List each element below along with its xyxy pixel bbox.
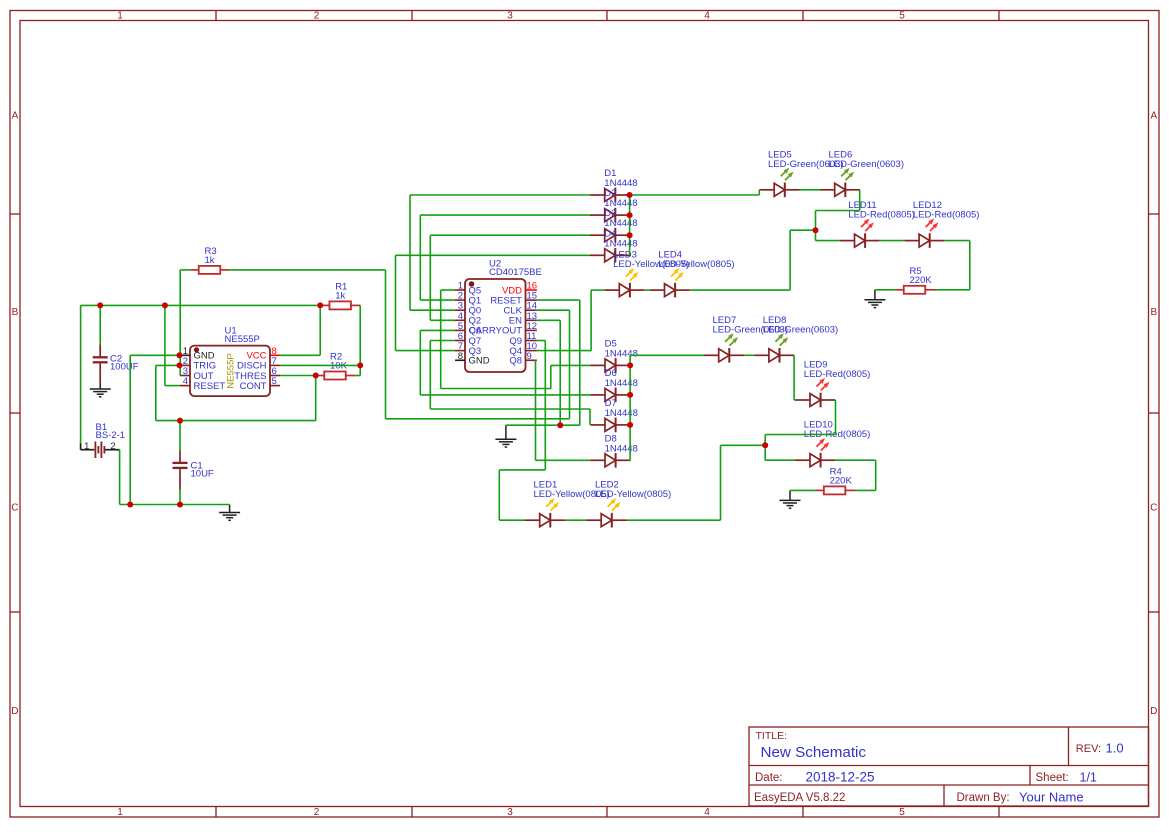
label C2 name bbox=[110, 354, 122, 365]
label D3 name bbox=[604, 208, 616, 219]
wire U2reset vertical bbox=[579, 300, 581, 425]
svg-text:C: C bbox=[1150, 503, 1157, 514]
svg-text:BS-2-1: BS-2-1 bbox=[96, 430, 126, 441]
wire D2 anode horizontal bbox=[420, 214, 590, 216]
resistor R3 bbox=[199, 266, 221, 274]
label C1 name bbox=[191, 461, 203, 472]
svg-text:1: 1 bbox=[117, 10, 123, 21]
wire LED11-LED12 link bbox=[880, 240, 905, 242]
label R1 value bbox=[335, 290, 345, 301]
junction D2 cathode bbox=[627, 212, 633, 218]
wire RESET horizontal bbox=[165, 385, 180, 387]
wire LED7-LED8 link bbox=[744, 354, 754, 356]
wire LED2 up vertical bbox=[720, 445, 722, 520]
wire LED5-LED6 link bbox=[800, 189, 821, 191]
svg-text:10UF: 10UF bbox=[191, 469, 214, 480]
LED LED11 bbox=[840, 219, 880, 248]
junction U1 pin1 bbox=[177, 352, 183, 358]
svg-text:1N4448: 1N4448 bbox=[605, 408, 638, 419]
wire Q5-D5 horizontal bbox=[441, 388, 551, 390]
battery B1 BS-2-1 bbox=[81, 442, 120, 459]
svg-text:4: 4 bbox=[704, 10, 710, 21]
svg-text:5: 5 bbox=[272, 376, 277, 387]
wire D bus vertical top bbox=[629, 195, 631, 255]
wire Q6 vertical bbox=[419, 330, 421, 395]
R2 leads bbox=[316, 375, 356, 377]
label D1 name bbox=[604, 168, 616, 179]
svg-text:LED-Yellow(0805): LED-Yellow(0805) bbox=[595, 489, 671, 500]
label D3 value bbox=[604, 218, 637, 229]
svg-text:1: 1 bbox=[117, 807, 123, 818]
ground GND-R4 bbox=[780, 490, 801, 508]
svg-text:9: 9 bbox=[527, 351, 532, 362]
junction D5 cathode bbox=[627, 362, 633, 368]
wire D5 link vertical bbox=[550, 365, 552, 388]
R3 leads bbox=[191, 269, 230, 271]
wire LED12 down vertical bbox=[969, 241, 971, 290]
svg-text:D: D bbox=[11, 706, 18, 717]
LED LED6 bbox=[820, 168, 860, 197]
label R2 name bbox=[330, 352, 342, 363]
resistor R2 bbox=[324, 372, 346, 380]
wire Q3-D4 vertical bbox=[395, 255, 397, 350]
label LED11 value bbox=[848, 210, 915, 221]
wire R5 right horizontal bbox=[936, 289, 970, 291]
wire Q0-D1 vertical bbox=[409, 195, 411, 310]
label R4 name bbox=[830, 467, 842, 478]
wire GND-555 vertical bbox=[129, 355, 131, 504]
svg-text:220K: 220K bbox=[910, 275, 933, 286]
svg-text:B: B bbox=[1150, 307, 1157, 318]
svg-text:1N4448: 1N4448 bbox=[604, 238, 637, 249]
label C2 value bbox=[110, 362, 139, 373]
wire C1 top stub bbox=[179, 421, 181, 451]
svg-text:Sheet:: Sheet: bbox=[1036, 772, 1069, 784]
wire LED4 cathode horizontal bbox=[690, 289, 790, 291]
wire D3 anode horizontal bbox=[430, 234, 590, 236]
label LED3 value bbox=[613, 259, 689, 270]
label LED4 value bbox=[658, 259, 734, 270]
wire R3-CLK vertical bbox=[385, 270, 387, 419]
U2 pin 7 stub bbox=[455, 350, 465, 352]
wire D6 anode horizontal bbox=[420, 394, 590, 396]
capacitor C1 bbox=[173, 463, 188, 468]
LED LED9 bbox=[795, 378, 835, 407]
svg-text:1k: 1k bbox=[205, 255, 215, 266]
wire LED12 cathode horizontal bbox=[944, 240, 969, 242]
diode D2 bbox=[590, 208, 630, 223]
svg-text:GND: GND bbox=[469, 356, 490, 367]
wire Q9 pin horizontal bbox=[537, 340, 545, 342]
diode D6 bbox=[590, 388, 630, 403]
wire Q4 vertical bbox=[590, 290, 592, 351]
junction rail-C2 bbox=[97, 302, 103, 308]
wire LED9 cathode horizontal bbox=[834, 399, 836, 401]
wire C1 bottom lead bbox=[179, 489, 181, 505]
wire D8 anode horizontal bbox=[536, 459, 591, 461]
U1 pin 1 stub bbox=[180, 354, 190, 356]
wire Q4 pin horizontal bbox=[537, 350, 591, 352]
wire R2 right link bbox=[355, 375, 360, 377]
U2 pin 11 stub bbox=[526, 340, 537, 342]
wire LED6 down vertical bbox=[859, 190, 861, 211]
label U1 value bbox=[225, 334, 260, 345]
C2 leads bbox=[99, 344, 101, 383]
wire LED10 cathode horizontal bbox=[835, 459, 875, 461]
wire LED10 net vertical bbox=[764, 435, 766, 461]
resistor R5 bbox=[904, 286, 926, 294]
label D7 value bbox=[605, 408, 638, 419]
U2 pin 3 stub bbox=[455, 309, 465, 311]
label D8 value bbox=[605, 443, 638, 454]
wire LED8 cathode vertical bbox=[793, 355, 795, 400]
svg-text:1/1: 1/1 bbox=[1080, 771, 1097, 785]
label LED5 name bbox=[768, 149, 792, 160]
title block bbox=[749, 727, 1149, 806]
U2 pin 15 stub bbox=[526, 299, 537, 301]
wire Q7 horizontal bbox=[430, 340, 455, 342]
label R3 name bbox=[205, 246, 217, 257]
wire U2reset pin horizontal bbox=[537, 299, 580, 301]
U1 pin numbers left bbox=[183, 346, 188, 387]
label LED11 name bbox=[848, 200, 876, 211]
wire Q1-D2 vertical bbox=[419, 215, 421, 300]
svg-text:2: 2 bbox=[314, 10, 320, 21]
wire LED1 anode horizontal bbox=[499, 519, 525, 521]
wire LED10 anode horizontal bbox=[765, 459, 795, 461]
wire LED34 top horizontal bbox=[790, 229, 815, 231]
LED LED2 bbox=[587, 498, 627, 527]
label B1 value bbox=[96, 430, 126, 441]
junction U1 pin2 bbox=[177, 362, 183, 368]
wire Q6 horizontal bbox=[420, 329, 455, 331]
diode D5 bbox=[590, 358, 630, 373]
wire THRES-C1 vertical bbox=[315, 376, 317, 421]
wire TRIG-C1 vertical bbox=[155, 365, 157, 420]
label LED4 name bbox=[658, 250, 682, 261]
wire LED6 cathode corner bbox=[859, 189, 861, 191]
label R5 name bbox=[910, 266, 922, 277]
U1 pin 2 stub bbox=[180, 364, 190, 366]
label R3 value bbox=[205, 255, 215, 266]
label C1 value bbox=[191, 469, 214, 480]
wire D4 anode horizontal bbox=[396, 254, 591, 256]
LED LED7 bbox=[704, 333, 744, 362]
IC U2 CD40175BE body bbox=[465, 279, 526, 372]
U2 pin 1 stub bbox=[455, 289, 465, 291]
label U2 value bbox=[489, 267, 542, 278]
wire EN vertical bbox=[559, 320, 561, 425]
wire Q8 vertical bbox=[535, 360, 537, 460]
label U1 name bbox=[225, 326, 237, 337]
ground GND-R5 bbox=[864, 290, 885, 308]
U1 pin 6 stub bbox=[270, 375, 280, 377]
wire LED78 feed horizontal bbox=[630, 354, 704, 356]
label LED5 value bbox=[768, 159, 844, 170]
label D6 value bbox=[605, 378, 638, 389]
U2 pin 14 stub bbox=[526, 309, 537, 311]
C1 leads bbox=[179, 450, 181, 490]
wire R4 right horizontal bbox=[856, 489, 876, 491]
label D4 name bbox=[604, 228, 616, 239]
U2 pin numbers left bbox=[458, 281, 463, 362]
op-amp U1 NE555P body bbox=[190, 346, 270, 397]
label R1 name bbox=[335, 282, 347, 293]
wire EN pin horizontal bbox=[537, 319, 560, 321]
wire TRIG horizontal bbox=[156, 364, 180, 366]
LED LED3 bbox=[605, 268, 645, 297]
svg-text:Your Name: Your Name bbox=[1019, 790, 1084, 805]
svg-text:CONT: CONT bbox=[240, 381, 267, 392]
svg-text:1: 1 bbox=[84, 441, 89, 452]
svg-text:220K: 220K bbox=[830, 475, 853, 486]
svg-text:A: A bbox=[1150, 111, 1157, 122]
wire Q7 horizontal2 bbox=[430, 408, 590, 410]
svg-text:CD40175BE: CD40175BE bbox=[489, 267, 542, 278]
svg-text:NE555P: NE555P bbox=[225, 334, 260, 345]
label D7 name bbox=[605, 398, 617, 409]
diode D3 bbox=[590, 228, 630, 243]
junction rail-R1 bbox=[317, 302, 323, 308]
resistor R4 bbox=[824, 486, 846, 494]
U2 pin 10 stub bbox=[526, 350, 537, 352]
wire Q0 horizontal bbox=[410, 309, 455, 311]
junction THRES-R2 bbox=[313, 373, 319, 379]
wire CLK pin horizontal bbox=[537, 309, 570, 311]
label LED9 name bbox=[804, 360, 828, 371]
svg-text:New Schematic: New Schematic bbox=[761, 744, 867, 761]
svg-text:Q8: Q8 bbox=[509, 356, 522, 367]
junction D6 cathode bbox=[627, 392, 633, 398]
svg-text:5: 5 bbox=[899, 807, 905, 818]
wire LED1 feed vertical bbox=[498, 470, 500, 520]
svg-text:5: 5 bbox=[899, 10, 905, 21]
wire LED6 bottom horizontal bbox=[816, 210, 860, 212]
ground GND-U2 bbox=[495, 425, 516, 447]
U1 pin 5 stub bbox=[270, 385, 280, 387]
wire Q9 horizontal2 bbox=[499, 469, 545, 471]
wire U2 ground horizontal bbox=[506, 424, 580, 426]
label B1 name bbox=[96, 422, 108, 433]
svg-text:1k: 1k bbox=[335, 290, 345, 301]
U1 vertical NE555P text bbox=[226, 353, 237, 388]
svg-text:1.0: 1.0 bbox=[1106, 741, 1124, 756]
svg-text:LED-Green(0603): LED-Green(0603) bbox=[763, 324, 839, 335]
junction DISCH-R1R2 bbox=[357, 362, 363, 368]
diode D4 bbox=[590, 248, 630, 263]
label D4 value bbox=[604, 238, 637, 249]
svg-text:LED-Green(0603): LED-Green(0603) bbox=[829, 159, 905, 170]
U1 pin names bbox=[194, 351, 267, 392]
wire VCC rail bbox=[81, 304, 321, 306]
wire LED9 anode horizontal bbox=[794, 399, 795, 401]
wire LED34 up vertical bbox=[789, 230, 791, 290]
wire THRES horizontal bbox=[280, 375, 316, 377]
label D1 value bbox=[604, 178, 637, 189]
wire Q2-D3 vertical bbox=[429, 235, 431, 320]
U2 pin 6 stub bbox=[455, 340, 465, 342]
U2 pin names bbox=[469, 285, 523, 366]
title block texts bbox=[754, 730, 1124, 805]
wire LED9 bottom horizontal bbox=[765, 434, 835, 436]
wire LED3-LED4 link bbox=[645, 289, 650, 291]
label LED12 value bbox=[913, 210, 980, 221]
wire Q1 horizontal bbox=[420, 299, 455, 301]
svg-text:1N4448: 1N4448 bbox=[605, 348, 638, 359]
U2 pin 16 stub bbox=[526, 289, 537, 291]
wire Q7 vertical bbox=[429, 341, 431, 410]
wire R3 left horizontal bbox=[180, 269, 191, 271]
wire CLK vertical bbox=[569, 310, 571, 419]
label LED2 value bbox=[595, 489, 671, 500]
resistor R1 bbox=[329, 301, 351, 309]
wire LED11 anode horizontal bbox=[816, 240, 840, 242]
diode D7 bbox=[590, 418, 630, 433]
wire D bus vertical bottom bbox=[629, 355, 631, 460]
wire LED1-LED2 link bbox=[565, 519, 587, 521]
wire C2 top lead bbox=[99, 305, 101, 345]
U1 pin 4 stub bbox=[180, 385, 190, 387]
wire R4 left horizontal bbox=[790, 489, 815, 491]
U1 pin numbers right bbox=[272, 346, 277, 387]
U1 pin 3 stub bbox=[180, 375, 190, 377]
U1 pin 7 stub bbox=[270, 364, 280, 366]
svg-text:100UF: 100UF bbox=[110, 362, 139, 373]
LED LED5 bbox=[760, 168, 800, 197]
wire ground bus bottom bbox=[120, 504, 230, 506]
svg-text:4: 4 bbox=[183, 376, 188, 387]
diode D8 bbox=[590, 453, 630, 468]
wire Q5 vertical bbox=[440, 290, 442, 389]
wire LED5 anode horizontal bbox=[758, 189, 760, 191]
label LED6 value bbox=[829, 159, 905, 170]
label D6 name bbox=[605, 368, 617, 379]
wire D1 anode horizontal bbox=[410, 194, 590, 196]
svg-text:A: A bbox=[12, 111, 19, 122]
wire RESET vertical bbox=[164, 305, 166, 385]
wire LED11 net vertical bbox=[815, 211, 817, 241]
wire LED56 jog vertical bbox=[758, 190, 760, 195]
U2 pin 2 stub bbox=[455, 299, 465, 301]
label LED8 value bbox=[763, 324, 839, 335]
svg-text:REV:: REV: bbox=[1076, 743, 1101, 755]
wire R5 left horizontal bbox=[875, 289, 895, 291]
LED LED10 bbox=[795, 438, 835, 467]
diode D1 bbox=[590, 188, 630, 203]
svg-text:3: 3 bbox=[507, 10, 513, 21]
label U2 name bbox=[489, 259, 501, 270]
label LED10 value bbox=[804, 429, 871, 440]
svg-text:RESET: RESET bbox=[194, 381, 226, 392]
svg-text:TITLE:: TITLE: bbox=[756, 730, 788, 742]
wire D5 anode horizontal bbox=[551, 364, 591, 366]
wire battery left vertical bbox=[80, 305, 82, 443]
wire GND-555 horizontal bbox=[130, 354, 180, 356]
label LED7 value bbox=[713, 324, 789, 335]
wire battery right vertical bbox=[119, 450, 121, 505]
junction D7 cathode bbox=[627, 422, 633, 428]
wire D7 jog vertical bbox=[589, 409, 591, 425]
svg-text:1N4448: 1N4448 bbox=[605, 443, 638, 454]
wire Q2 horizontal bbox=[430, 319, 455, 321]
junction rail-RESET bbox=[162, 302, 168, 308]
R1 leads bbox=[320, 304, 360, 306]
U2 pin 13 stub bbox=[526, 319, 537, 321]
wire LED56 feed horizontal bbox=[630, 194, 760, 196]
svg-text:LED-Red(0805): LED-Red(0805) bbox=[913, 210, 980, 221]
label D8 name bbox=[605, 433, 617, 444]
U2 pin 8 stub bbox=[455, 359, 465, 361]
svg-text:LED-Red(0805): LED-Red(0805) bbox=[804, 369, 871, 380]
wire LED10 down vertical bbox=[875, 460, 877, 490]
wire LED2 cathode horizontal bbox=[627, 519, 721, 521]
U2 pin numbers right bbox=[527, 281, 538, 362]
R5 leads bbox=[895, 289, 935, 291]
label R5 value bbox=[910, 275, 933, 286]
wire CLK link horizontal bbox=[386, 418, 570, 420]
wire LED2 top horizontal bbox=[721, 444, 766, 446]
label LED1 value bbox=[534, 489, 610, 500]
svg-text:C: C bbox=[11, 503, 18, 514]
label LED12 name bbox=[913, 200, 942, 211]
U2 pin 9 stub bbox=[526, 359, 537, 361]
label LED8 name bbox=[763, 315, 787, 326]
junction LED10 net bbox=[762, 442, 768, 448]
LED LED1 bbox=[525, 498, 565, 527]
U2 pin 5 stub bbox=[455, 329, 465, 331]
junction D3 cathode bbox=[627, 232, 633, 238]
wire VCC-555 horizontal bbox=[280, 354, 320, 356]
svg-text:3: 3 bbox=[507, 807, 513, 818]
U2 pin 12 stub bbox=[526, 329, 537, 331]
junction U2 ground line bbox=[557, 422, 563, 428]
wire R1-R2 vertical bbox=[359, 305, 361, 375]
label LED1 name bbox=[534, 480, 558, 491]
label LED2 name bbox=[595, 480, 619, 491]
label D2 name bbox=[604, 188, 616, 199]
wire R3 right horizontal bbox=[228, 269, 386, 271]
label R4 value bbox=[830, 475, 853, 486]
label D5 value bbox=[605, 348, 638, 359]
label LED7 name bbox=[713, 315, 737, 326]
svg-text:B: B bbox=[12, 307, 19, 318]
svg-text:2: 2 bbox=[110, 441, 115, 452]
LED LED8 bbox=[754, 333, 794, 362]
label R2 value bbox=[330, 361, 348, 372]
svg-text:D: D bbox=[1150, 706, 1157, 717]
wire DISCH horizontal bbox=[280, 364, 360, 366]
R4 leads bbox=[815, 489, 856, 491]
wire Q3 horizontal bbox=[396, 350, 456, 352]
label D5 name bbox=[605, 338, 617, 349]
junction gnd bus - C1 bbox=[177, 502, 183, 508]
svg-text:1N4448: 1N4448 bbox=[605, 378, 638, 389]
label LED6 name bbox=[829, 149, 853, 160]
label LED9 value bbox=[804, 369, 871, 380]
svg-text:EasyEDA V5.8.22: EasyEDA V5.8.22 bbox=[754, 792, 845, 804]
U1 pin 8 stub bbox=[270, 354, 280, 356]
svg-text:8: 8 bbox=[458, 351, 463, 362]
wire R3-OUT vertical bbox=[179, 270, 181, 376]
wire LED9 down vertical bbox=[835, 400, 837, 435]
wire LED3 anode horizontal bbox=[591, 289, 605, 291]
label LED10 name bbox=[804, 420, 833, 431]
junction D1 cathode bbox=[627, 192, 633, 198]
svg-text:Drawn By:: Drawn By: bbox=[957, 792, 1010, 804]
svg-text:4: 4 bbox=[704, 807, 710, 818]
ground GND-main bbox=[219, 505, 240, 521]
junction gnd bus - U1gnd bbox=[127, 502, 133, 508]
